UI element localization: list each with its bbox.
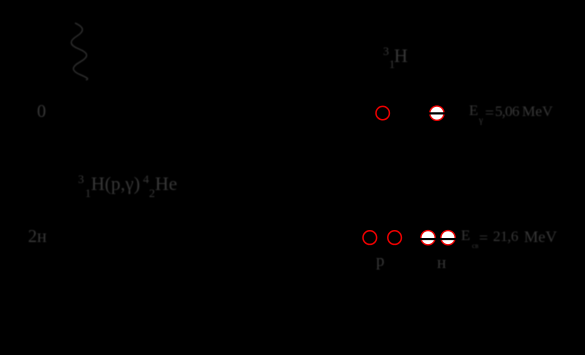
neutron pair (bottom row, filled circles with bar) <box>421 231 435 245</box>
proton pair (bottom row, open red circles) <box>363 231 377 245</box>
proton symbol (top row, open red circle) <box>376 106 389 119</box>
tritium label 3,1 H (above top row) <box>383 45 389 57</box>
reaction text 3H(p,g)4He (middle) <box>78 173 84 185</box>
neutron symbol (top row, filled circle with bar) <box>430 106 444 120</box>
label 0 (left, top row) <box>37 102 46 120</box>
label n (below bottom filled circles) <box>437 254 446 271</box>
energy text Eg = 19,8 MeV (top row) <box>469 104 478 119</box>
energy text Esv = 28,3 MeV (bottom row) <box>461 229 470 244</box>
label p (below bottom open circles) <box>376 252 385 269</box>
label 2n (left, bottom row) <box>28 227 47 245</box>
